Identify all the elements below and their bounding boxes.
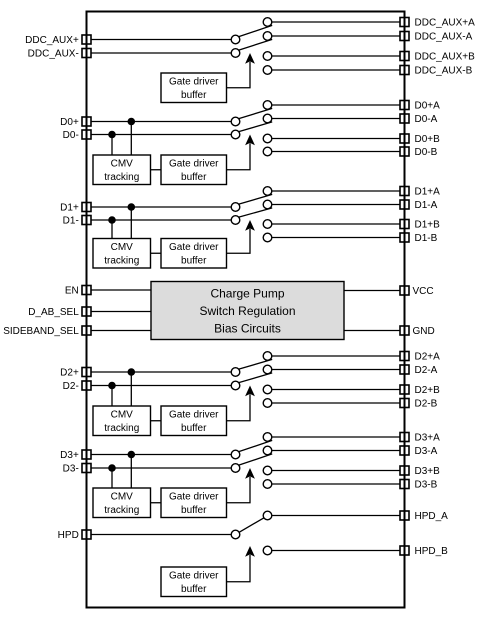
pin D2+ (left terminal + label): [60, 368, 91, 379]
switch throw DDC_AUX+B: [263, 52, 272, 61]
wire D2- input: [91, 385, 231, 387]
svg-text:Gate driver: Gate driver: [169, 409, 219, 420]
pin D0-B (right terminal + label): [400, 147, 438, 158]
pin D2-B (right terminal + label): [400, 399, 438, 410]
svg-text:tracking: tracking: [104, 256, 139, 267]
switch blade D1- to D1-A: [239, 208, 272, 217]
gate drive arrowhead U5: [245, 468, 255, 479]
wire gate drive U1: [227, 62, 251, 88]
svg-text:HPD_B: HPD_B: [415, 546, 449, 557]
switch throw D1-A: [263, 200, 272, 209]
svg-text:D3-B: D3-B: [415, 480, 438, 491]
switch throw D2+A: [263, 352, 272, 361]
wire gate drive U3: [227, 229, 251, 253]
wire HPD_A output: [272, 515, 400, 517]
wire CMV tap D2+: [130, 372, 132, 406]
svg-text:tracking: tracking: [104, 423, 139, 434]
wire D3- input: [91, 467, 231, 469]
svg-text:D0-: D0-: [63, 130, 79, 141]
pin D2+A (right terminal + label): [400, 352, 440, 363]
svg-text:buffer: buffer: [181, 423, 207, 434]
junction dot D1+ tap: [128, 203, 136, 211]
pin D2- (left terminal + label): [63, 381, 91, 392]
wire D3+A output: [272, 436, 400, 438]
wire D0+B output: [272, 138, 400, 140]
wire CMV tap D1+: [130, 207, 132, 239]
svg-text:D2+: D2+: [60, 368, 79, 379]
gate driver buffer U5: [161, 488, 227, 518]
wire D0+ input: [91, 121, 231, 123]
switch blade D0+ to D0+A: [239, 108, 272, 118]
wire D1+A output: [272, 190, 400, 192]
switch blade D0- to D0-A: [239, 122, 272, 132]
pin D1-A (right terminal + label): [400, 200, 438, 211]
wire EN: [91, 289, 151, 291]
svg-text:SIDEBAND_SEL: SIDEBAND_SEL: [3, 326, 79, 337]
switch throw D0+B: [263, 134, 272, 143]
wire D3-B output: [272, 483, 400, 485]
wire D0-B output: [272, 151, 400, 153]
svg-text:D3-: D3-: [63, 464, 79, 475]
wire D0- input: [91, 134, 231, 136]
pin DDC_AUX+B (right terminal + label): [400, 52, 475, 63]
pin SIDEBAND_SEL (left terminal + label): [3, 326, 91, 337]
svg-text:Gate driver: Gate driver: [169, 76, 219, 87]
svg-text:D1+: D1+: [60, 203, 79, 214]
svg-text:D1-A: D1-A: [415, 200, 438, 211]
svg-text:DDC_AUX+B: DDC_AUX+B: [415, 52, 476, 63]
wire D0-A output: [272, 118, 400, 120]
gate driver buffer U2: [161, 155, 227, 185]
svg-text:D0+A: D0+A: [415, 101, 441, 112]
pin D0+ (left terminal + label): [60, 117, 91, 128]
wire D3+ input: [91, 454, 231, 456]
wire D2+B output: [272, 389, 400, 391]
svg-text:EN: EN: [65, 286, 79, 297]
pin D1+A (right terminal + label): [400, 187, 440, 198]
pin D0- (left terminal + label): [63, 130, 91, 141]
CMV tracking block U7: [93, 155, 151, 185]
switch blade D3- to D3-A: [239, 454, 272, 465]
svg-text:buffer: buffer: [181, 505, 207, 516]
wire D2+ input: [91, 371, 231, 373]
svg-text:CMV: CMV: [111, 491, 134, 502]
pin GND (right terminal + label): [400, 326, 435, 337]
pin D0+B (right terminal + label): [400, 134, 440, 145]
pin D1-B (right terminal + label): [400, 233, 438, 244]
wire DDC_AUX+B output: [272, 55, 400, 57]
wire D3+B output: [272, 470, 400, 472]
switch throw DDC_AUX-A: [263, 32, 272, 41]
svg-text:D1+B: D1+B: [415, 220, 441, 231]
svg-text:DDC_AUX+A: DDC_AUX+A: [415, 18, 476, 29]
switch pole D1+: [231, 203, 240, 212]
IC outline: [87, 12, 405, 608]
wire D1- input: [91, 219, 231, 221]
pin DDC_AUX-B (right terminal + label): [400, 66, 473, 77]
svg-text:Gate driver: Gate driver: [169, 242, 219, 253]
wire CMV to gate driver U10: [151, 502, 162, 504]
junction dot D3- tap: [108, 464, 116, 472]
wire CMV to gate driver U7: [151, 169, 162, 171]
wire CMV tap D2-: [111, 386, 113, 407]
CMV tracking block U10: [93, 488, 151, 518]
svg-text:DDC_AUX-: DDC_AUX-: [28, 49, 79, 60]
switch pole D3-: [231, 464, 240, 473]
wire D2+A output: [272, 355, 400, 357]
svg-text:D2-B: D2-B: [415, 399, 438, 410]
pin D0+A (right terminal + label): [400, 101, 440, 112]
svg-text:D0-A: D0-A: [415, 114, 438, 125]
switch throw D3-B: [263, 480, 272, 489]
svg-text:Gate driver: Gate driver: [169, 158, 219, 169]
pin DDC_AUX-A (right terminal + label): [400, 32, 473, 43]
svg-text:D2+B: D2+B: [415, 385, 441, 396]
switch pole DDC_AUX+: [231, 35, 240, 44]
switch throw D3-A: [263, 446, 272, 455]
gate drive arrowhead U3: [245, 220, 255, 231]
svg-text:GND: GND: [413, 326, 435, 337]
svg-text:D1-B: D1-B: [415, 233, 438, 244]
junction dot D0+ tap: [128, 118, 136, 126]
pin D2-A (right terminal + label): [400, 365, 438, 376]
svg-text:D2+A: D2+A: [415, 352, 441, 363]
gate drive arrowhead U4: [245, 386, 255, 397]
wire HPD_B output: [272, 550, 400, 552]
wire D0+A output: [272, 104, 400, 106]
pin D3- (left terminal + label): [63, 464, 91, 475]
svg-text:buffer: buffer: [181, 584, 207, 595]
switch pole D3+: [231, 450, 240, 459]
svg-text:HPD: HPD: [58, 530, 79, 541]
wire D1-A output: [272, 204, 400, 206]
wire D1+B output: [272, 223, 400, 225]
gate driver buffer U4: [161, 406, 227, 436]
switch pole D0+: [231, 117, 240, 126]
wire gate drive U5: [227, 477, 251, 503]
pin D_AB_SEL (left terminal + label): [28, 307, 91, 318]
svg-text:D3+: D3+: [60, 450, 79, 461]
svg-text:CMV: CMV: [111, 409, 134, 420]
pin HPD_B (right terminal + label): [400, 546, 448, 557]
pin HPD_A (right terminal + label): [400, 511, 448, 522]
gate driver buffer U1: [161, 73, 227, 103]
switch throw DDC_AUX-B: [263, 66, 272, 75]
wire DDC_AUX+A output: [272, 21, 400, 23]
switch blade HPD to HPD_A: [239, 518, 264, 533]
switch blade D1+ to D1+A: [239, 194, 272, 204]
wire D3-A output: [272, 450, 400, 452]
pin D3-B (right terminal + label): [400, 480, 438, 491]
wire CMV tap D1-: [111, 220, 113, 239]
switch pole D0-: [231, 130, 240, 139]
CMV tracking block U9: [93, 406, 151, 436]
junction dot D2- tap: [108, 382, 116, 390]
switch throw D1+B: [263, 220, 272, 229]
pin DDC_AUX+ (left terminal + label): [25, 35, 91, 46]
wire SIDEBAND_SEL: [91, 330, 151, 332]
switch throw DDC_AUX+A: [263, 18, 272, 27]
junction dot D2+ tap: [128, 368, 136, 376]
junction dot D1- tap: [108, 216, 116, 224]
pin D1+ (left terminal + label): [60, 203, 91, 214]
CMV tracking block U8: [93, 239, 151, 269]
junction dot D0- tap: [108, 131, 116, 139]
switch throw D0-B: [263, 147, 272, 156]
pin HPD (left terminal + label): [58, 530, 91, 541]
wire CMV to gate driver U8: [151, 252, 162, 254]
svg-text:Gate driver: Gate driver: [169, 491, 219, 502]
pin EN (left terminal + label): [65, 286, 91, 297]
wire DDC_AUX-B output: [272, 69, 400, 71]
switch throw D2-A: [263, 365, 272, 374]
switch pole D2-: [231, 381, 240, 390]
wire CMV tap D3+: [130, 455, 132, 489]
switch pole D1-: [231, 216, 240, 225]
pin DDC_AUX- (left terminal + label): [28, 49, 91, 60]
wire DDC_AUX+ input: [91, 39, 231, 41]
pin D0-A (right terminal + label): [400, 114, 438, 125]
junction dot D3+ tap: [128, 451, 136, 459]
gate drive arrowhead U2: [245, 135, 255, 146]
switch throw HPD_B: [263, 546, 272, 555]
pin D3+ (left terminal + label): [60, 450, 91, 461]
svg-text:buffer: buffer: [181, 172, 207, 183]
pin D1- (left terminal + label): [63, 216, 91, 227]
wire gate drive U4: [227, 394, 251, 420]
svg-text:buffer: buffer: [181, 256, 207, 267]
pin VCC (right terminal + label): [400, 286, 434, 297]
switch throw D3+B: [263, 466, 272, 475]
svg-text:D3+A: D3+A: [415, 433, 441, 444]
switch throw D2+B: [263, 385, 272, 394]
wire gate drive U6: [227, 555, 251, 582]
svg-text:D3+B: D3+B: [415, 466, 441, 477]
svg-text:DDC_AUX+: DDC_AUX+: [25, 35, 79, 46]
switch throw HPD_A: [263, 511, 272, 520]
wire CMV tap D0-: [111, 135, 113, 156]
wire gate drive U2: [227, 143, 251, 169]
switch throw D1+A: [263, 187, 272, 196]
switch throw D0-A: [263, 114, 272, 123]
svg-text:HPD_A: HPD_A: [415, 511, 449, 522]
wire D_AB_SEL: [91, 311, 151, 313]
switch blade D2+ to D2+A: [239, 359, 272, 369]
svg-text:DDC_AUX-B: DDC_AUX-B: [415, 66, 473, 77]
wire CMV to gate driver U9: [151, 420, 162, 422]
svg-text:D1+A: D1+A: [415, 187, 441, 198]
wire D2-B output: [272, 402, 400, 404]
pin D1+B (right terminal + label): [400, 220, 440, 231]
gate driver buffer U6: [161, 567, 227, 597]
wire GND: [344, 330, 400, 332]
gate drive arrowhead U6: [245, 546, 255, 557]
wire DDC_AUX-A output: [272, 35, 400, 37]
svg-text:D1-: D1-: [63, 216, 79, 227]
svg-text:VCC: VCC: [413, 286, 434, 297]
switch throw D1-B: [263, 233, 272, 242]
svg-text:buffer: buffer: [181, 90, 207, 101]
svg-text:Switch Regulation: Switch Regulation: [199, 304, 295, 318]
switch throw D2-B: [263, 399, 272, 408]
gate drive arrowhead U1: [245, 53, 255, 64]
svg-text:Gate driver: Gate driver: [169, 570, 219, 581]
svg-text:Charge Pump: Charge Pump: [210, 287, 284, 301]
gate driver buffer U3: [161, 239, 227, 269]
switch pole DDC_AUX-: [231, 49, 240, 58]
svg-text:DDC_AUX-A: DDC_AUX-A: [415, 32, 473, 43]
svg-text:D0-B: D0-B: [415, 147, 438, 158]
pin DDC_AUX+A (right terminal + label): [400, 18, 475, 29]
switch blade D3+ to D3+A: [239, 440, 272, 451]
switch blade DDC_AUX- to DDC_AUX-A: [239, 39, 272, 50]
switch pole HPD: [231, 530, 240, 539]
svg-text:D2-A: D2-A: [415, 365, 438, 376]
wire HPD input: [91, 534, 231, 536]
svg-text:D_AB_SEL: D_AB_SEL: [28, 307, 79, 318]
svg-text:tracking: tracking: [104, 172, 139, 183]
switch pole D2+: [231, 368, 240, 377]
pin D3-A (right terminal + label): [400, 446, 438, 457]
pin D2+B (right terminal + label): [400, 385, 440, 396]
switch throw D0+A: [263, 101, 272, 110]
switch throw D3+A: [263, 433, 272, 442]
switch blade DDC_AUX+ to DDC_AUX+A: [239, 25, 272, 36]
wire DDC_AUX- input: [91, 52, 231, 54]
wire D1-B output: [272, 237, 400, 239]
pin D3+A (right terminal + label): [400, 433, 440, 444]
pin D3+B (right terminal + label): [400, 466, 440, 477]
svg-text:D0+B: D0+B: [415, 134, 441, 145]
wire VCC: [344, 290, 400, 292]
svg-text:Bias Circuits: Bias Circuits: [214, 322, 281, 336]
svg-text:D2-: D2-: [63, 381, 79, 392]
wire D1+ input: [91, 206, 231, 208]
wire D2-A output: [272, 369, 400, 371]
charge pump / switch regulation / bias circuits block U11: [151, 282, 344, 340]
wire CMV tap D0+: [130, 122, 132, 156]
svg-text:D3-A: D3-A: [415, 446, 438, 457]
svg-text:CMV: CMV: [111, 242, 134, 253]
svg-text:D0+: D0+: [60, 117, 79, 128]
switch blade D2- to D2-A: [239, 373, 272, 383]
svg-text:CMV: CMV: [111, 158, 134, 169]
svg-text:tracking: tracking: [104, 505, 139, 516]
wire CMV tap D3-: [111, 468, 113, 488]
